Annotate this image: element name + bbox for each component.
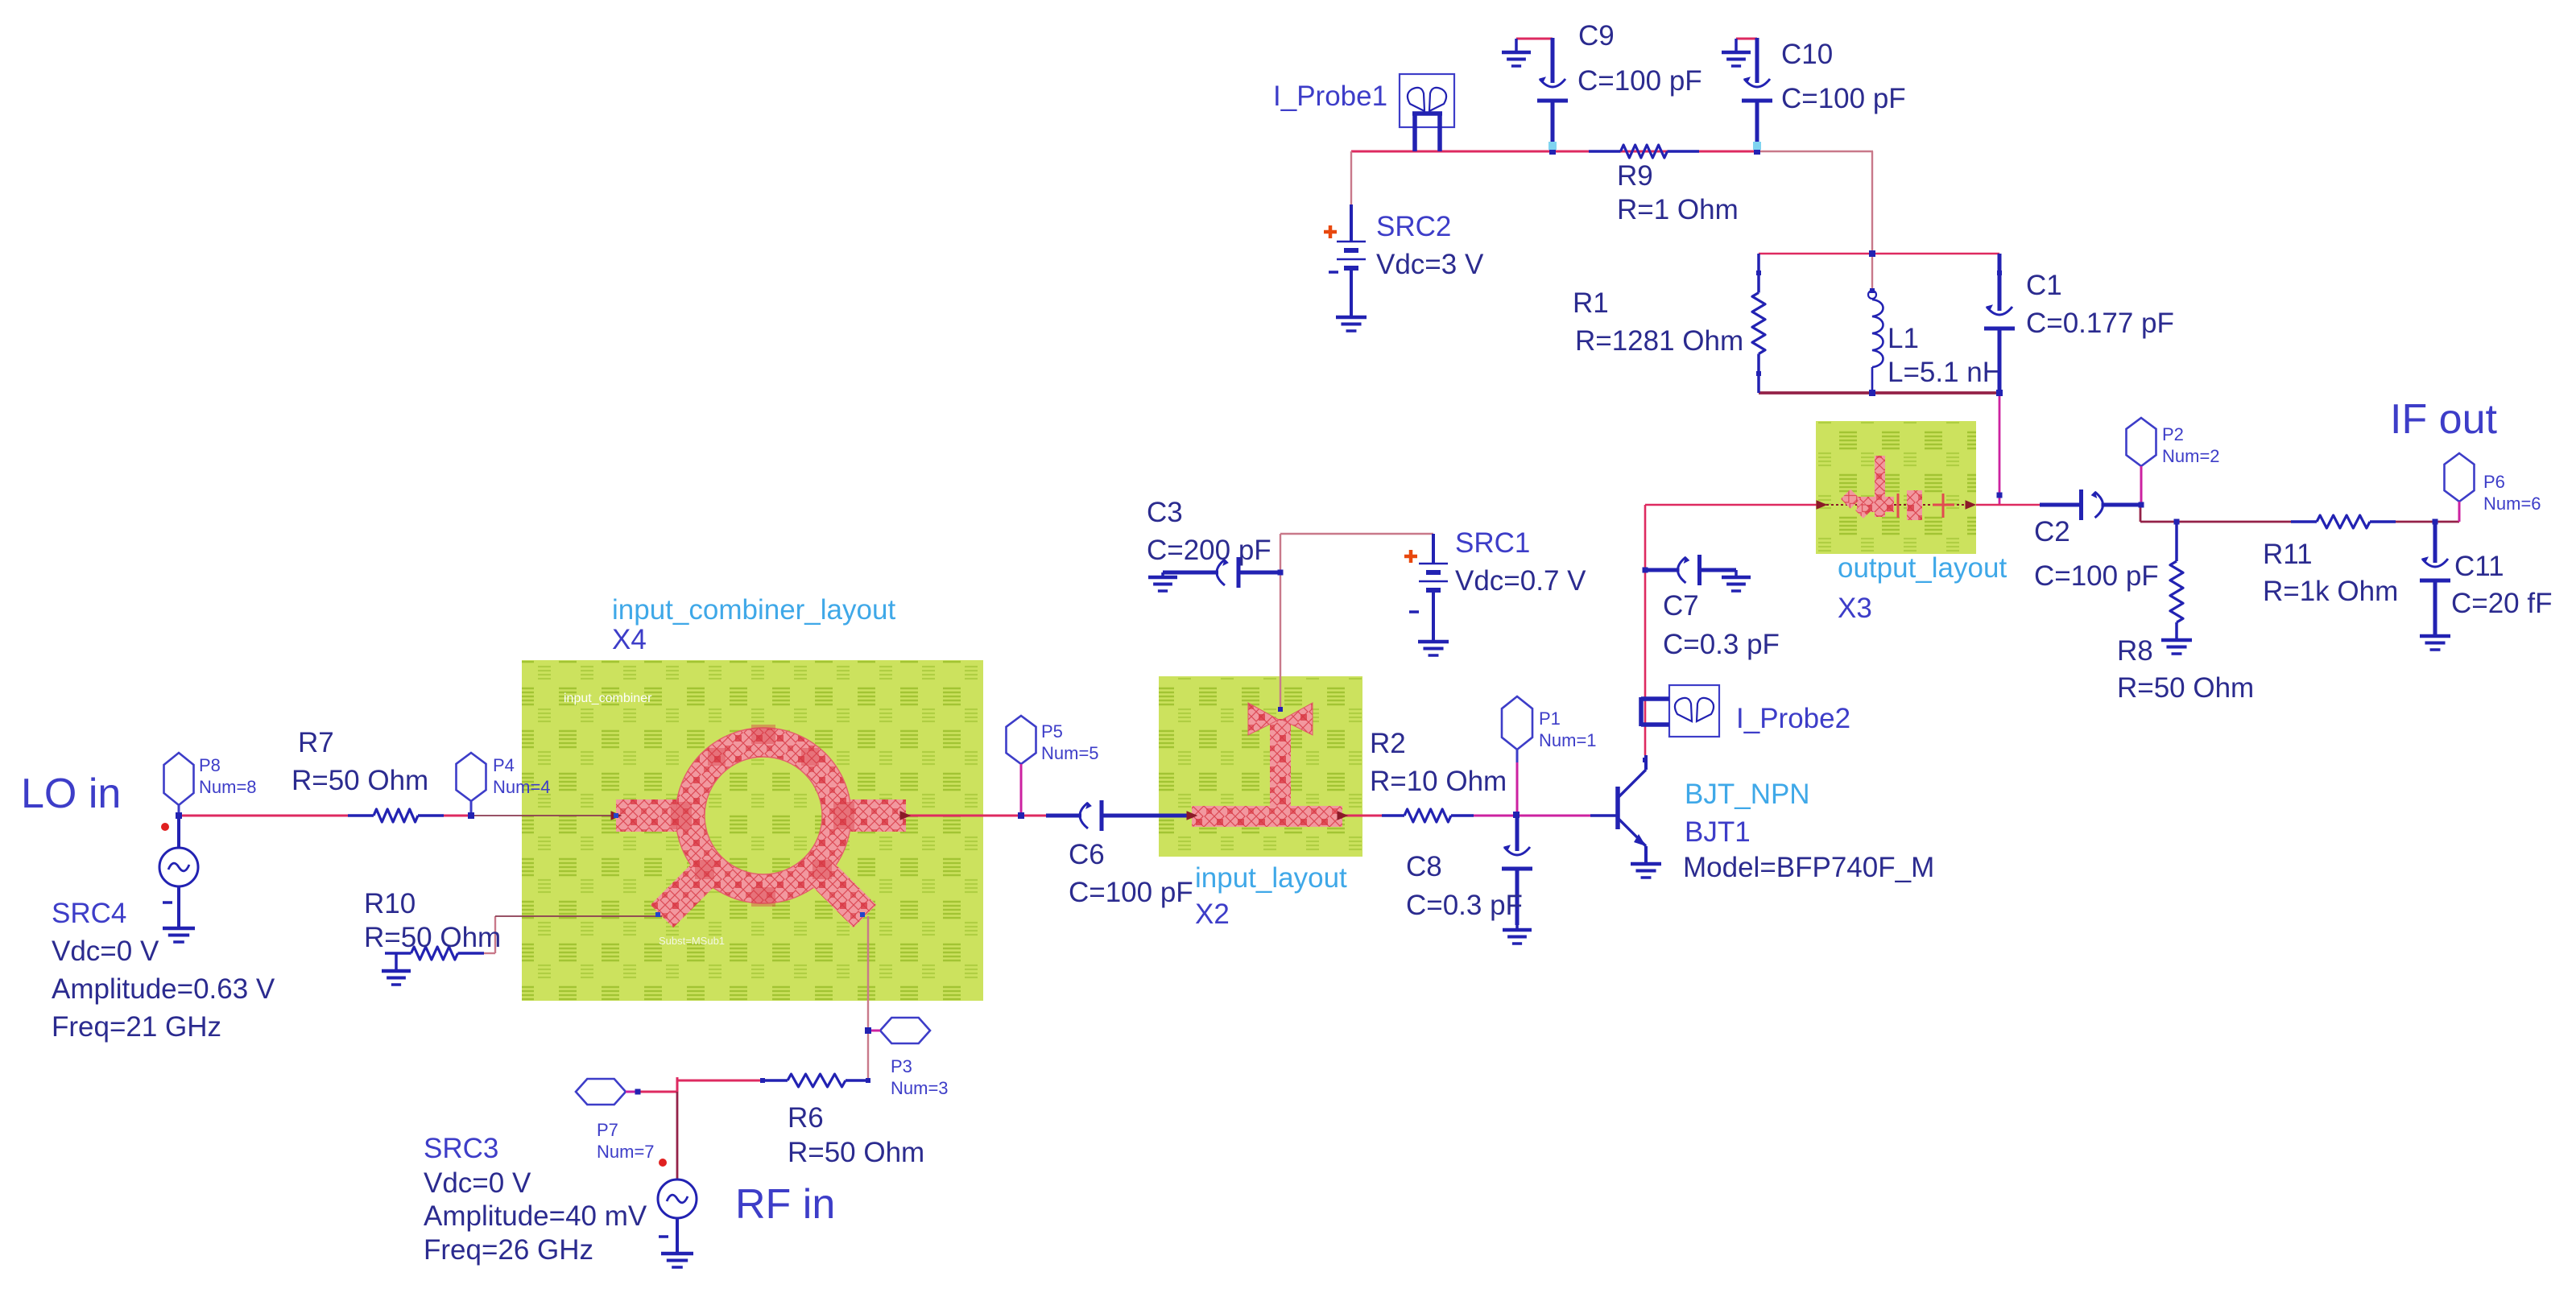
svg-text:R=50 Ohm: R=50 Ohm <box>364 922 501 953</box>
svg-text:C11: C11 <box>2454 551 2504 582</box>
svg-text:P7: P7 <box>597 1120 618 1140</box>
svg-text:C=200 pF: C=200 pF <box>1147 535 1271 566</box>
svg-text:C=100 pF: C=100 pF <box>1577 65 1702 97</box>
svg-text:L1: L1 <box>1888 323 1919 354</box>
svg-text:BJT1: BJT1 <box>1685 816 1751 848</box>
svg-text:R=50 Ohm: R=50 Ohm <box>2117 672 2254 704</box>
svg-text:R=1 Ohm: R=1 Ohm <box>1617 194 1739 225</box>
svg-text:P1: P1 <box>1539 708 1561 729</box>
svg-text:Vdc=0.7 V: Vdc=0.7 V <box>1455 565 1586 597</box>
svg-text:C=100 pF: C=100 pF <box>1069 877 1193 908</box>
svg-text:input_layout: input_layout <box>1195 862 1347 894</box>
svg-text:R=50 Ohm: R=50 Ohm <box>788 1137 924 1168</box>
svg-text:R1: R1 <box>1573 287 1609 319</box>
svg-text:C=20 fF: C=20 fF <box>2451 588 2552 619</box>
svg-text:Vdc=0 V: Vdc=0 V <box>52 936 159 967</box>
svg-text:R7: R7 <box>298 727 334 758</box>
svg-text:SRC4: SRC4 <box>52 898 126 929</box>
svg-text:SRC2: SRC2 <box>1376 211 1451 242</box>
svg-text:Freq=21 GHz: Freq=21 GHz <box>52 1011 221 1043</box>
svg-text:R9: R9 <box>1617 160 1653 192</box>
svg-text:C=0.3 pF: C=0.3 pF <box>1663 629 1780 660</box>
svg-text:R2: R2 <box>1370 728 1406 759</box>
svg-text:Num=7: Num=7 <box>597 1142 655 1162</box>
svg-text:C1: C1 <box>2026 270 2062 301</box>
svg-text:R8: R8 <box>2117 635 2153 667</box>
svg-text:I_Probe2: I_Probe2 <box>1736 703 1850 734</box>
svg-text:P6: P6 <box>2483 472 2505 492</box>
svg-text:C=0.3 pF: C=0.3 pF <box>1406 890 1523 921</box>
svg-text:P4: P4 <box>493 755 515 775</box>
svg-text:R6: R6 <box>788 1102 824 1134</box>
svg-text:R11: R11 <box>2263 539 2313 570</box>
svg-text:Num=5: Num=5 <box>1041 743 1099 763</box>
svg-text:C7: C7 <box>1663 590 1699 622</box>
svg-text:P8: P8 <box>199 755 221 775</box>
svg-text:C8: C8 <box>1406 851 1442 882</box>
svg-text:C=100 pF: C=100 pF <box>2034 560 2159 592</box>
svg-text:Amplitude=40 mV: Amplitude=40 mV <box>424 1200 647 1232</box>
svg-text:C6: C6 <box>1069 839 1105 870</box>
svg-text:Freq=26 GHz: Freq=26 GHz <box>424 1234 593 1266</box>
svg-text:Vdc=3 V: Vdc=3 V <box>1376 249 1484 280</box>
svg-text:input_combiner: input_combiner <box>564 692 652 705</box>
svg-text:C=0.177 pF: C=0.177 pF <box>2026 308 2174 339</box>
svg-text:X3: X3 <box>1838 593 1872 624</box>
svg-text:IF out: IF out <box>2390 396 2497 443</box>
svg-text:LO in: LO in <box>21 770 121 817</box>
svg-text:Num=1: Num=1 <box>1539 730 1597 750</box>
svg-text:C9: C9 <box>1578 20 1615 52</box>
svg-text:SRC3: SRC3 <box>424 1133 498 1164</box>
svg-text:X4: X4 <box>612 624 647 655</box>
svg-text:C3: C3 <box>1147 497 1183 528</box>
svg-text:R10: R10 <box>364 888 416 919</box>
svg-text:L=5.1 nH: L=5.1 nH <box>1888 357 2003 388</box>
svg-text:P3: P3 <box>891 1056 912 1076</box>
svg-text:C=100 pF: C=100 pF <box>1781 83 1906 114</box>
svg-text:Num=3: Num=3 <box>891 1078 949 1098</box>
svg-text:R=1k Ohm: R=1k Ohm <box>2263 576 2398 607</box>
svg-text:Num=8: Num=8 <box>199 777 257 797</box>
svg-text:R=10 Ohm: R=10 Ohm <box>1370 766 1507 797</box>
svg-text:P2: P2 <box>2162 424 2184 444</box>
svg-text:SRC1: SRC1 <box>1455 527 1530 559</box>
svg-text:I_Probe1: I_Probe1 <box>1273 81 1387 112</box>
svg-text:X2: X2 <box>1195 898 1230 930</box>
svg-text:BJT_NPN: BJT_NPN <box>1685 779 1810 810</box>
svg-text:output_layout: output_layout <box>1838 552 2007 584</box>
svg-text:Model=BFP740F_M: Model=BFP740F_M <box>1683 852 1934 883</box>
svg-text:Subst=MSub1: Subst=MSub1 <box>659 935 725 947</box>
svg-text:input_combiner_layout: input_combiner_layout <box>612 594 895 626</box>
svg-text:RF in: RF in <box>735 1181 835 1228</box>
svg-text:R=1281 Ohm: R=1281 Ohm <box>1575 325 1743 357</box>
svg-text:Num=2: Num=2 <box>2162 446 2220 466</box>
svg-text:Num=4: Num=4 <box>493 777 551 797</box>
svg-text:P5: P5 <box>1041 721 1063 742</box>
svg-text:C2: C2 <box>2034 516 2070 547</box>
svg-text:Amplitude=0.63 V: Amplitude=0.63 V <box>52 973 275 1005</box>
svg-text:R=50 Ohm: R=50 Ohm <box>292 765 428 796</box>
svg-text:Vdc=0 V: Vdc=0 V <box>424 1167 531 1199</box>
svg-text:C10: C10 <box>1781 39 1833 70</box>
svg-text:Num=6: Num=6 <box>2483 494 2541 514</box>
